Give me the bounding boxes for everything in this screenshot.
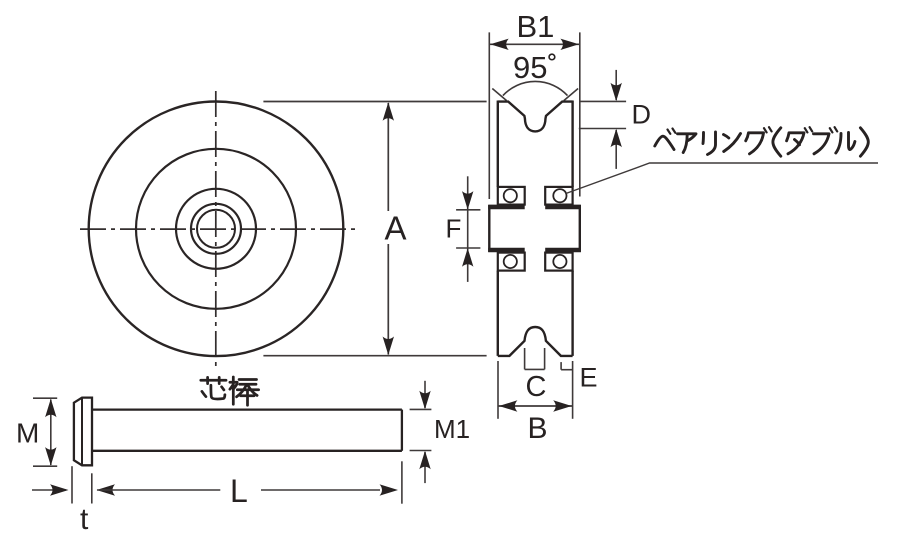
- dimension C line: [525, 368, 545, 370]
- callout text bearing (double) : katakana hand-drawn: [655, 127, 869, 156]
- dimension M1 upper tick: [410, 408, 432, 410]
- dimension C right extension line: [544, 348, 546, 369]
- katakana GU: [746, 133, 764, 154]
- M down arrowhead: [45, 447, 56, 466]
- katakana A: [678, 134, 697, 153]
- hub flange top edge: [488, 205, 581, 210]
- angle arc: [503, 81, 568, 95]
- shaft pin head outline: [74, 398, 92, 466]
- wheel rim inner circle: [136, 149, 296, 309]
- dimension M1 line lower: [424, 452, 426, 483]
- bore outer ring: [191, 204, 241, 254]
- katakana RU: [836, 133, 855, 154]
- katakana DA: [787, 133, 804, 154]
- dimension M line: [50, 400, 52, 466]
- groove left slant extension line: [492, 89, 506, 101]
- svg-text:C: C: [526, 371, 547, 403]
- dimension A line: [387, 103, 389, 355]
- dimension t left extension line: [71, 466, 73, 503]
- shaft pin body top edge: [92, 408, 402, 410]
- dimension t right extension line: [91, 473, 93, 503]
- dimension B1 line: [489, 43, 580, 45]
- upper left bearing outer race: [498, 187, 525, 205]
- lower left bearing ball: [504, 255, 517, 268]
- dimension M1 lower tick: [410, 450, 432, 452]
- F lower arrowhead: [462, 248, 473, 267]
- fullwidth open paren: [773, 128, 781, 156]
- upper left bearing ball: [504, 189, 517, 202]
- t right-pointing arrowhead: [50, 484, 69, 495]
- dimension E tick: [560, 362, 562, 370]
- section rim right edge upper: [571, 101, 573, 187]
- hub flange bottom edge: [488, 248, 581, 253]
- dimension M upper tick: [33, 397, 57, 399]
- svg-text:t: t: [80, 503, 89, 536]
- section: B1 right extension line: [579, 32, 581, 196]
- D upper arrowhead: [611, 83, 622, 102]
- shaft pin body bottom edge: [92, 450, 402, 452]
- lower right bearing ball: [553, 255, 566, 268]
- F upper arrowhead: [462, 191, 473, 210]
- dimension L right extension line: [401, 461, 403, 503]
- svg-text:B1: B1: [517, 9, 555, 44]
- svg-text:F: F: [446, 213, 462, 243]
- wheel outer circle: [89, 102, 344, 357]
- M1 upper arrowhead: [419, 391, 430, 410]
- dimension M1 line upper: [424, 381, 426, 408]
- dimension t-L line left segment: [32, 489, 66, 491]
- D lower arrowhead: [611, 129, 622, 148]
- dimension L line middle segment: [97, 489, 220, 491]
- L right-pointing arrowhead: [380, 484, 399, 495]
- dimension D line upper: [615, 70, 617, 100]
- wheel hub circle: [176, 189, 256, 269]
- svg-text:M: M: [16, 418, 39, 449]
- B1 right arrowhead: [560, 39, 579, 50]
- dimension M lower tick: [33, 465, 57, 467]
- katakana BU: [814, 134, 830, 154]
- kanji SHIN (core): [201, 377, 226, 383]
- bore inner ring: [197, 210, 235, 248]
- katakana BE: [655, 136, 674, 149]
- shaft pin head face line: [81, 398, 83, 466]
- M1 lower arrowhead: [419, 451, 430, 470]
- dimension F lower tick: [456, 247, 480, 249]
- dimension F upper tick: [456, 209, 480, 211]
- svg-text:D: D: [632, 100, 652, 130]
- dimension A up arrowhead: [383, 102, 394, 121]
- dimension E line: [561, 369, 572, 371]
- dimension D upper extension line: [581, 100, 627, 102]
- section rim left edge upper: [497, 101, 499, 187]
- svg-text:95˚: 95˚: [513, 50, 558, 85]
- svg-text:M1: M1: [434, 414, 470, 444]
- dimension B right extension line: [572, 361, 574, 419]
- dimension D lower extension line: [579, 128, 626, 130]
- upper right bearing outer race: [545, 187, 572, 205]
- B right arrowhead: [553, 400, 572, 411]
- shared left-pointing arrowhead: [97, 484, 116, 495]
- shaft pin body right end: [401, 410, 403, 451]
- lower left bearing outer race: [498, 253, 525, 271]
- upper right bearing ball: [553, 189, 566, 202]
- dimension L line right segment: [261, 489, 380, 491]
- wheel front view: horizontal centerline: [80, 228, 355, 230]
- dimension F line: [467, 176, 469, 282]
- section: B1 left extension line: [488, 32, 490, 199]
- katakana N: [724, 134, 741, 152]
- hub flange left edge: [488, 205, 490, 252]
- B left arrowhead: [499, 400, 518, 411]
- section bottom edge with groove notch: [498, 327, 573, 356]
- fullwidth close paren: [860, 128, 868, 156]
- M up arrowhead: [45, 399, 56, 418]
- bearing callout leader line: [566, 163, 878, 193]
- section rim right edge lower: [571, 271, 573, 356]
- label shaft pin (kanji): [201, 377, 259, 405]
- section rim left edge lower: [497, 271, 499, 356]
- dimension A bottom extension line: [263, 355, 486, 357]
- svg-text:A: A: [385, 210, 407, 247]
- groove right slant extension line: [564, 89, 578, 101]
- dimension C left extension line: [524, 348, 526, 369]
- dimension B left extension line: [497, 361, 499, 419]
- svg-text:B: B: [528, 412, 548, 445]
- hub flange right edge: [579, 205, 581, 252]
- wheel front view: vertical centerline: [215, 91, 217, 367]
- dimension A top extension line: [263, 101, 486, 103]
- dimension A down arrowhead: [383, 337, 394, 356]
- B1 left arrowhead: [490, 39, 509, 50]
- dimension D line lower: [615, 130, 617, 169]
- svg-text:E: E: [580, 362, 598, 392]
- svg-text:L: L: [230, 473, 248, 509]
- lower right bearing outer race: [545, 253, 572, 271]
- katakana RI: [703, 132, 716, 155]
- wheel section top profile with V-groove: [498, 102, 573, 132]
- kanji BOU (rod): [230, 377, 237, 404]
- dimension B line: [498, 405, 573, 407]
